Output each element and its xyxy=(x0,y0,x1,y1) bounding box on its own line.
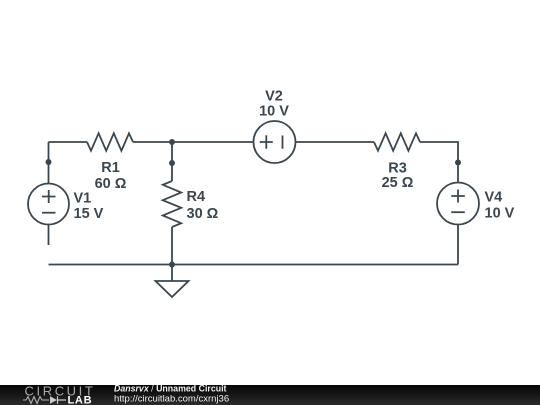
logo diode xyxy=(50,396,57,403)
svg-text:30 Ω: 30 Ω xyxy=(187,206,219,222)
ground stub xyxy=(171,265,173,282)
node dot top junction xyxy=(169,139,175,145)
svg-text:V1: V1 xyxy=(74,191,92,207)
svg-text:25 Ω: 25 Ω xyxy=(382,175,414,191)
wire middle vertical top xyxy=(171,142,173,181)
wire V1 bottom stub xyxy=(48,225,50,246)
resistor R4 xyxy=(163,181,181,227)
wire R1 to V2 xyxy=(133,141,254,143)
svg-text:10 V: 10 V xyxy=(485,206,515,222)
svg-text:http://circuitlab.com/cxrnj36: http://circuitlab.com/cxrnj36 xyxy=(114,394,229,405)
node dot ground junction xyxy=(169,262,175,268)
wire V2 to R3 xyxy=(296,141,375,143)
ground triangle xyxy=(156,281,189,297)
svg-text:R4: R4 xyxy=(187,189,206,205)
svg-text:Dansrvx / Unnamed Circuit: Dansrvx / Unnamed Circuit xyxy=(114,384,227,394)
resistor R1 xyxy=(87,133,133,150)
V2 plus sign xyxy=(260,135,273,148)
wire R4 bottom to rail xyxy=(171,227,173,265)
V4 plus sign xyxy=(451,190,465,203)
wire R3 to right corner xyxy=(420,142,458,183)
V1 plus sign xyxy=(42,190,56,203)
svg-text:V4: V4 xyxy=(485,190,503,206)
svg-text:10 V: 10 V xyxy=(259,104,289,120)
logo resistor squiggle xyxy=(23,397,49,404)
svg-text:15 V: 15 V xyxy=(74,206,104,222)
wire V4 bottom to rail xyxy=(457,224,459,265)
voltage source V4 circle xyxy=(437,183,479,225)
V4 minus sign xyxy=(451,211,465,213)
wire bottom rail xyxy=(49,264,459,266)
wire left vertical to V1 xyxy=(48,142,50,184)
svg-text:LAB: LAB xyxy=(68,395,93,405)
footer bar xyxy=(0,385,540,405)
svg-text:60 Ω: 60 Ω xyxy=(95,176,127,192)
voltage source V1 circle xyxy=(28,184,69,225)
svg-text:R1: R1 xyxy=(101,160,120,176)
node dot V1 top xyxy=(46,159,52,165)
svg-text:V2: V2 xyxy=(265,89,283,105)
wire top-left horizontal xyxy=(49,141,88,143)
node dot V4 top xyxy=(455,160,461,166)
voltage source V2 circle xyxy=(254,121,296,163)
V1 minus sign xyxy=(42,212,56,214)
node dot R4 top xyxy=(169,160,175,166)
resistor R3 xyxy=(374,133,420,150)
V2 minus bar xyxy=(282,136,284,149)
